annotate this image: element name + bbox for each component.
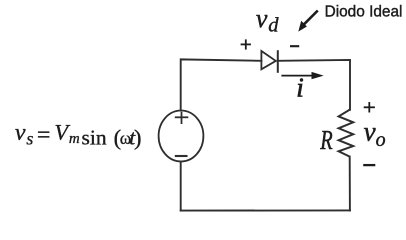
svg-text:R: R <box>319 125 332 156</box>
output plus label <box>364 102 375 113</box>
voltage source VS <box>159 111 204 162</box>
svg-text:Diodo Ideal: Diodo Ideal <box>325 4 403 21</box>
diode D1 triangle <box>261 51 275 69</box>
source equation vs = Vm sin (wt) <box>15 120 142 151</box>
wire top-right segment <box>278 60 350 110</box>
svg-text:d: d <box>268 15 279 37</box>
svg-text:o: o <box>376 129 386 151</box>
current arrow i <box>281 72 323 79</box>
Diodo Ideal pointer arrow <box>298 11 318 32</box>
svg-text:): ) <box>134 125 142 150</box>
svg-text:m: m <box>69 131 80 147</box>
svg-text:v: v <box>256 4 268 33</box>
source minus sign <box>175 155 188 157</box>
svg-text:s: s <box>26 129 33 149</box>
svg-text:v: v <box>15 120 26 146</box>
svg-text:sin: sin <box>82 125 107 149</box>
diode plus label <box>241 39 251 49</box>
diode minus label <box>290 45 299 47</box>
svg-text:v: v <box>364 116 376 146</box>
wire right-bottom segment <box>349 157 351 211</box>
wire left-bottom segment <box>180 162 182 211</box>
output minus label <box>363 164 375 166</box>
source plus sign <box>175 112 189 124</box>
resistor R zigzag <box>339 110 354 157</box>
wire top-left segment <box>181 59 262 110</box>
svg-text:=: = <box>37 123 51 149</box>
wire bottom segment <box>181 209 350 211</box>
diode cathode bar <box>277 50 279 73</box>
svg-text:i: i <box>296 73 304 103</box>
